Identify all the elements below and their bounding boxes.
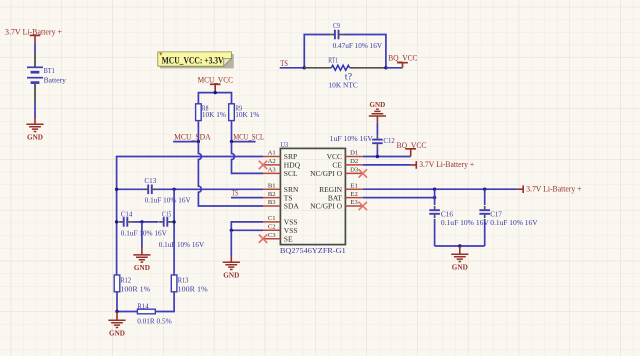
junction C17 top xyxy=(483,188,486,191)
wire R9 bottom xyxy=(231,121,233,142)
power port 3.7V Li-Battery + (battery) xyxy=(5,27,62,43)
wire MCU_SCL stub xyxy=(232,141,256,143)
wire C16 bottom to C17 bottom xyxy=(435,245,485,247)
svg-text:GND: GND xyxy=(452,262,468,271)
svg-text:1uF 10% 16V: 1uF 10% 16V xyxy=(330,134,374,143)
junction E2/C16 xyxy=(433,196,436,199)
ground (shunt) xyxy=(108,312,125,338)
wire pin E2 to C16 column xyxy=(363,197,435,199)
power port BQ_VCC (top) xyxy=(388,53,417,67)
capacitor C15 xyxy=(142,209,205,249)
svg-text:10K 1%: 10K 1% xyxy=(235,110,260,119)
svg-text:0.47uF 10% 16V: 0.47uF 10% 16V xyxy=(333,41,383,50)
wire to BQ_VCC port xyxy=(386,67,403,69)
svg-text:A2: A2 xyxy=(268,158,276,165)
capacitor C12 xyxy=(330,134,395,147)
svg-text:0.1uF 10% 16V: 0.1uF 10% 16V xyxy=(159,240,205,249)
svg-text:D1: D1 xyxy=(350,150,358,157)
svg-text:MCU_SDA: MCU_SDA xyxy=(174,132,211,141)
svg-text:SE: SE xyxy=(284,234,293,243)
pin E3 NC/GPI O xyxy=(310,199,363,211)
no-connect X on A2 xyxy=(259,161,267,169)
svg-text:3.7V Li-Battery +: 3.7V Li-Battery + xyxy=(526,185,582,194)
svg-text:3.7V Li-Battery +: 3.7V Li-Battery + xyxy=(419,160,474,169)
pin A1 SRP xyxy=(263,150,297,162)
wire TS stub xyxy=(280,67,305,69)
svg-text:E3: E3 xyxy=(350,199,358,206)
junction C14 left on SRP rail xyxy=(115,220,118,223)
battery BT1 xyxy=(27,53,66,103)
capacitor C16 xyxy=(429,189,489,246)
wire SRN rail down xyxy=(173,189,175,275)
svg-text:C15: C15 xyxy=(162,209,172,218)
no-connect X on C3 xyxy=(259,235,267,243)
wire pin D2 to battery port xyxy=(363,164,411,166)
wire ground drop from C14/C15 xyxy=(141,222,143,248)
svg-text:B2: B2 xyxy=(268,191,276,198)
ground (C14/C15) xyxy=(133,248,150,272)
svg-text:TS: TS xyxy=(280,59,288,68)
junction MCU_VCC node xyxy=(214,91,217,94)
wire VSS down xyxy=(230,230,232,256)
svg-text:MCU_VCC: MCU_VCC xyxy=(198,76,233,85)
svg-text:100R 1%: 100R 1% xyxy=(120,285,151,294)
capacitor C13 xyxy=(117,176,263,205)
wire pin E1 to battery port xyxy=(363,188,518,190)
svg-text:GND: GND xyxy=(370,100,386,109)
pin B2 TS xyxy=(263,191,293,203)
svg-text:C9: C9 xyxy=(333,21,340,30)
svg-text:NC/GPI O: NC/GPI O xyxy=(310,169,342,178)
wire R13 bottom to R14 xyxy=(155,292,174,312)
svg-text:C2: C2 xyxy=(268,224,276,231)
wire R8 bottom xyxy=(197,121,199,142)
junction SRN node xyxy=(172,188,175,191)
junction MCU_SDA xyxy=(197,140,200,143)
junction RT1 right node xyxy=(384,66,387,69)
wire ground to C12 xyxy=(376,123,378,136)
no-connect X on E3 xyxy=(359,202,367,210)
capacitor C17 xyxy=(479,189,538,246)
wire MCU_SCL to pin A3 (hop over SRP wire) xyxy=(232,142,264,174)
pin B1 SRN xyxy=(263,182,299,194)
svg-text:BQ27546YZFR-G1: BQ27546YZFR-G1 xyxy=(280,246,346,255)
note MCU_VCC: +3.3V xyxy=(158,52,234,69)
wire MCU_SDA stub xyxy=(173,141,198,143)
capacitor C9 xyxy=(330,21,382,50)
thermistor RT1 xyxy=(304,55,386,89)
wire C12 to VCC node xyxy=(376,147,378,156)
junction TS node xyxy=(303,66,306,69)
ground (VSS) xyxy=(223,256,240,280)
junction ground tap xyxy=(458,244,461,247)
svg-text:A3: A3 xyxy=(268,167,277,174)
wire R14 left to shunt node xyxy=(117,311,137,313)
junction C13 left on SRP rail xyxy=(115,188,118,191)
pin A3 SCL xyxy=(263,167,298,179)
wire SRP to pin A1 xyxy=(117,157,263,190)
wire R12 bottom to shunt node xyxy=(116,292,118,312)
svg-text:C13: C13 xyxy=(144,176,156,185)
svg-text:10K 1%: 10K 1% xyxy=(202,110,227,119)
svg-text:GND: GND xyxy=(134,263,150,272)
wire TS stub to pin B2 xyxy=(231,197,263,199)
pin D3 NC/GPI O xyxy=(310,167,363,179)
svg-text:0.01R 0.5%: 0.01R 0.5% xyxy=(137,316,172,325)
junction VCC/C12 xyxy=(376,155,379,158)
wire MCU_SDA to pin B3 (hops over SRP and SRN wires) xyxy=(198,142,263,206)
svg-text:RT1: RT1 xyxy=(328,55,338,64)
wire battery bottom xyxy=(34,103,36,118)
svg-text:C3: C3 xyxy=(268,232,276,239)
power port 3.7V Li-Battery + (at D2) xyxy=(410,160,474,169)
svg-text:NC/GPI O: NC/GPI O xyxy=(310,202,342,211)
junction C14-C15 ground node xyxy=(140,220,143,223)
pin C3 SE xyxy=(263,232,293,244)
IC U3 BQ27546 body xyxy=(280,148,345,244)
svg-text:R13: R13 xyxy=(178,275,189,284)
svg-text:0.1uF 10% 16V: 0.1uF 10% 16V xyxy=(441,218,489,227)
wire pin C2 to VSS node xyxy=(231,229,263,231)
svg-text:100R 1%: 100R 1% xyxy=(178,285,209,294)
svg-text:E1: E1 xyxy=(350,182,357,189)
svg-text:0.1uF 10% 16V: 0.1uF 10% 16V xyxy=(490,218,538,227)
svg-text:R14: R14 xyxy=(137,302,149,311)
pin B3 SDA xyxy=(263,199,299,211)
junction C16 top xyxy=(433,188,436,191)
svg-text:GND: GND xyxy=(223,271,239,280)
resistor R12 xyxy=(114,275,151,294)
pin E2 BAT xyxy=(328,191,363,203)
svg-text:C12: C12 xyxy=(383,136,395,145)
wire SRP rail down xyxy=(116,189,118,275)
junction VSS xyxy=(230,229,233,232)
svg-text:U3: U3 xyxy=(281,140,289,149)
wire pin D1 to BQ_VCC xyxy=(363,156,411,158)
junction R12/R14 shunt node xyxy=(115,310,118,313)
svg-text:E2: E2 xyxy=(350,191,357,198)
pin D2 CE xyxy=(332,158,362,170)
svg-text:GND: GND xyxy=(109,328,125,337)
svg-text:MCU_SCL: MCU_SCL xyxy=(233,132,264,141)
power port BQ_VCC (at D1) xyxy=(397,141,427,157)
svg-text:BT1: BT1 xyxy=(44,66,55,75)
resistor R9 xyxy=(229,104,260,121)
svg-text:C1: C1 xyxy=(268,215,276,222)
svg-text:10K NTC: 10K NTC xyxy=(329,80,358,89)
ground (above C12, inverted) xyxy=(369,100,386,123)
wire battery top xyxy=(34,43,36,53)
svg-text:R12: R12 xyxy=(120,275,131,284)
svg-text:0.1uF 10% 16V: 0.1uF 10% 16V xyxy=(121,229,167,238)
svg-text:D2: D2 xyxy=(350,158,358,165)
power port MCU_VCC xyxy=(198,76,233,93)
svg-text:Battery: Battery xyxy=(44,76,66,85)
pin D1 VCC xyxy=(327,150,363,162)
svg-text:SDA: SDA xyxy=(284,202,300,211)
pin C1 VSS xyxy=(263,215,298,227)
svg-text:SCL: SCL xyxy=(284,169,298,178)
ground (C16/C17) xyxy=(451,246,468,271)
wire C9 loop left xyxy=(304,35,330,68)
svg-text:BQ_VCC: BQ_VCC xyxy=(388,53,417,62)
svg-text:B3: B3 xyxy=(268,199,276,206)
pin A2 HDQ xyxy=(263,158,301,170)
power port 3.7V Li-Battery + (at E1) xyxy=(517,185,582,194)
resistor R8 xyxy=(196,104,227,121)
svg-text:C14: C14 xyxy=(121,209,133,218)
svg-text:MCU_VCC: +3.3V: MCU_VCC: +3.3V xyxy=(162,55,224,65)
ground (battery) xyxy=(26,118,43,142)
svg-text:TS: TS xyxy=(232,188,238,197)
svg-text:B1: B1 xyxy=(268,182,276,189)
wire R8 top to R9 top xyxy=(198,93,231,104)
wire pin C1 to VSS node xyxy=(231,222,263,230)
svg-text:0.1uF 10% 16V: 0.1uF 10% 16V xyxy=(145,195,191,204)
capacitor C14 xyxy=(117,209,168,237)
junction MCU_SCL xyxy=(230,140,233,143)
junction C15 right on SRN rail xyxy=(172,220,175,223)
pin C2 VSS xyxy=(263,224,298,236)
svg-text:GND: GND xyxy=(27,132,43,141)
svg-text:A1: A1 xyxy=(268,150,276,157)
resistor R13 xyxy=(171,275,208,294)
wire C9 loop right xyxy=(343,35,386,68)
no-connect X on D3 xyxy=(359,169,367,177)
pin E1 REGIN xyxy=(319,182,363,194)
resistor R14 xyxy=(137,302,172,326)
svg-text:D3: D3 xyxy=(350,167,359,174)
